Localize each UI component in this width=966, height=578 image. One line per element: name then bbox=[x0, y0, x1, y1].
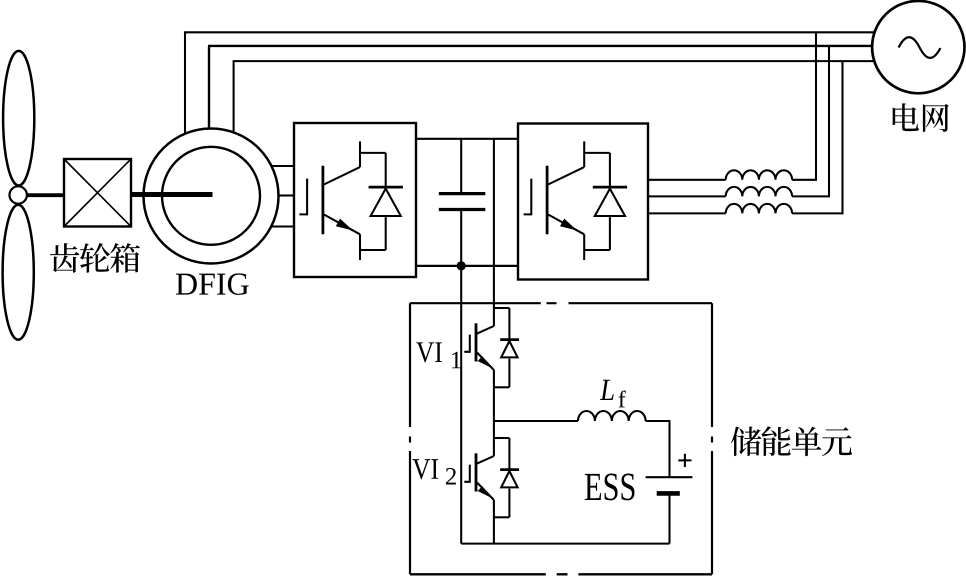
rotor-side converter box bbox=[294, 123, 416, 277]
label VI1 bbox=[416, 342, 461, 368]
grid source circle bbox=[872, 1, 964, 93]
stator wire 3 bbox=[233, 61, 874, 132]
wire positive feed to storage bbox=[493, 139, 495, 326]
DFIG outer circle bbox=[144, 129, 279, 264]
DC bus positive rail bbox=[416, 138, 518, 140]
label 齿轮箱 bbox=[50, 243, 140, 273]
IGBT rotor-side converter bbox=[299, 141, 403, 260]
label Lf bbox=[600, 380, 626, 408]
wind turbine blade lower bbox=[3, 205, 34, 340]
grid sine wave bbox=[899, 37, 941, 58]
grid branch wire b bbox=[828, 46, 830, 197]
grid-side converter box bbox=[518, 124, 648, 280]
DFIG inner circle bbox=[162, 147, 260, 245]
DC bus negative rail bbox=[416, 265, 518, 267]
IGBT VI1 bbox=[464, 308, 519, 387]
shaft hub-gearbox bbox=[27, 193, 64, 197]
label VI2 bbox=[412, 459, 456, 484]
gearbox bbox=[64, 159, 131, 227]
IGBT grid-side converter bbox=[524, 141, 628, 260]
stator wire 1 bbox=[184, 32, 874, 133]
wire Lf to battery bbox=[646, 420, 670, 477]
wire midpoint to Lf bbox=[494, 420, 578, 422]
bottom wire bbox=[461, 543, 669, 545]
rotor wire 1 bbox=[272, 165, 295, 167]
rotor wire 3 bbox=[271, 225, 294, 227]
shaft gearbox-DFIG bbox=[131, 192, 213, 197]
wire VI2 emitter to bottom bbox=[493, 500, 495, 544]
DC-link capacitor bbox=[439, 139, 486, 266]
rotor wire 2 bbox=[278, 194, 294, 196]
label ESS bbox=[585, 474, 635, 501]
wire negative feed to storage bbox=[460, 266, 462, 544]
label DFIG bbox=[176, 273, 249, 294]
turbine hub bbox=[10, 186, 27, 203]
IGBT VI2 bbox=[464, 438, 519, 517]
energy storage unit boundary box bbox=[410, 303, 712, 574]
label 储能单元 bbox=[731, 426, 852, 456]
label 电网 bbox=[893, 103, 949, 132]
grid branch wire a bbox=[815, 32, 817, 180]
wire VI1-VI2 bbox=[493, 370, 495, 456]
stator wire 2 bbox=[208, 46, 872, 129]
grid branch wire c bbox=[841, 61, 843, 213]
battery plus sign bbox=[678, 454, 691, 467]
filter inductor line 3 bbox=[648, 204, 844, 214]
wind turbine blade upper bbox=[3, 51, 34, 186]
filter inductor line 2 bbox=[648, 187, 830, 197]
filter inductor line 1 bbox=[648, 170, 817, 180]
junction node bbox=[457, 261, 466, 270]
inductor Lf bbox=[578, 411, 646, 421]
battery ESS bbox=[646, 477, 693, 543]
